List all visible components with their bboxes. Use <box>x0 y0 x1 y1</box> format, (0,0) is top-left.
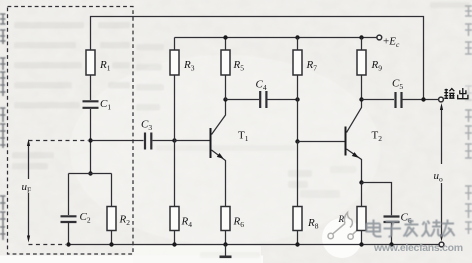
node: R9 rail junction <box>359 35 363 39</box>
node: R10 bottom junction <box>359 242 363 246</box>
uo dimension line with arrows <box>441 106 443 164</box>
resistor R4 <box>170 207 179 231</box>
wire: C6 bottom lead <box>391 223 393 245</box>
capacitor C2 <box>61 216 77 222</box>
子 <box>384 222 402 237</box>
resistor R7 <box>293 50 302 75</box>
terminal: bottom output <box>439 242 444 247</box>
wire: T1 base wire <box>175 140 210 142</box>
dashed feedback-network box <box>8 7 134 255</box>
resistor R3 <box>170 50 179 75</box>
node: T2 base junction <box>295 139 299 143</box>
watermark text <box>367 219 463 254</box>
terminal +Ec <box>377 35 382 40</box>
wire: collector node to C5 <box>362 99 395 101</box>
wire: R10 bottom lead <box>361 231 363 245</box>
capacitor C4 <box>260 91 266 108</box>
wire: R3 top lead <box>174 38 176 51</box>
label 输出 (output, drawn as strokes) <box>444 88 468 99</box>
wire: R5 bottom lead <box>225 75 227 100</box>
capacitor C1 <box>83 101 99 108</box>
wire: T2 base wire <box>298 141 345 143</box>
wire: R8 bottom lead <box>297 231 299 245</box>
wire: C2 bottom lead <box>68 223 70 245</box>
node: feedback/output junction <box>421 97 425 101</box>
wire: C5 to output terminal <box>403 99 439 101</box>
transistor T1 <box>210 128 212 158</box>
wire: R9 top lead <box>361 38 363 51</box>
wire: +Ec supply rail <box>175 37 377 39</box>
node: C4 right junction <box>295 97 299 101</box>
node: R4 bottom junction <box>172 242 176 246</box>
node: T2 collector junction <box>359 97 363 101</box>
svg-text:www.elecfans.com: www.elecfans.com <box>373 242 463 254</box>
wire: R5 top lead <box>225 38 227 51</box>
wire: C2/R2 top bar <box>69 173 112 175</box>
node: T2 emitter junction <box>359 180 363 184</box>
node: R8 bottom junction <box>295 242 299 246</box>
wire: R7 bottom through C4 node to T2 base node <box>297 75 299 142</box>
capacitor C5 <box>396 92 402 108</box>
node: R6 bottom junction <box>223 242 227 246</box>
wire: C2 top lead <box>68 174 70 216</box>
wire: R4 bottom lead <box>174 231 176 245</box>
烧 <box>422 220 442 237</box>
watermark 电子发烧友 (approximated glyph strokes) <box>367 219 455 237</box>
node: R2 bottom junction <box>109 242 113 246</box>
wire: R6 bottom lead <box>225 231 227 245</box>
wire: C4 left wire <box>226 99 260 101</box>
resistor R10 <box>357 207 366 231</box>
ground <box>225 245 227 257</box>
wire: R7 top lead <box>297 38 299 51</box>
resistor R6 <box>221 207 230 231</box>
友 <box>442 220 455 237</box>
wire: T2 emitter to R10 <box>361 183 363 207</box>
node: T1 base junction <box>172 138 176 142</box>
node: feedback node junction <box>88 138 92 142</box>
resistor R2 <box>107 207 116 231</box>
wire: base node down to R8 <box>297 142 299 207</box>
node: R7 rail junction <box>295 35 299 39</box>
transistor T2 <box>345 127 347 156</box>
terminal: output <box>439 97 444 102</box>
capacitor C6 <box>384 217 400 223</box>
发 <box>404 219 419 237</box>
wire: bottom ground rail <box>69 244 439 246</box>
node: C2/R2 top junction <box>88 171 92 175</box>
wire: dashed reference from uF line to node <box>29 140 89 142</box>
wire: C3 to base node of T1 <box>153 140 175 142</box>
resistor R9 <box>357 50 366 75</box>
wire: R9 bottom lead to collector node <box>361 75 363 100</box>
wire: R2 top lead <box>111 174 113 207</box>
wire: C1 to feedback node <box>90 109 92 174</box>
resistor R1 <box>86 50 95 75</box>
wire: C4 right wire <box>268 99 298 101</box>
resistor R8 <box>293 207 302 231</box>
wire: R1 bottom to C1 <box>90 75 92 100</box>
wire: R3 bottom to base node to R4 <box>174 75 176 207</box>
svg-text:R: R <box>338 214 345 224</box>
node: R5 rail junction <box>223 35 227 39</box>
wire: top feedback rail from R1 to output node <box>91 17 424 100</box>
wire: dashed extension to bottom rail <box>29 244 67 246</box>
resistor R5 <box>221 50 230 75</box>
capacitor C3 <box>145 133 151 150</box>
wire: emitter branch to C6 <box>362 183 392 216</box>
wire: R2 bottom lead <box>111 231 113 245</box>
wire: node to C3 <box>91 140 144 142</box>
node: C2 bottom junction <box>66 242 70 246</box>
电 <box>367 220 382 237</box>
watermark logo circle <box>322 213 362 259</box>
node: C6 bottom junction <box>389 242 393 246</box>
node: T1 collector junction <box>223 97 227 101</box>
uF dimension line with arrows <box>28 143 30 240</box>
